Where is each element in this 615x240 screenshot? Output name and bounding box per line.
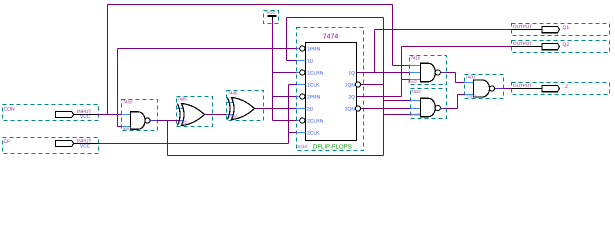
svg-text:2QN: 2QN [345, 107, 356, 113]
svg-text:OUTPUT: OUTPUT [513, 24, 532, 29]
svg-text:Inst5: Inst5 [178, 119, 188, 124]
svg-text:OUTPUT: OUTPUT [513, 83, 532, 88]
svg-text:7486: 7486 [177, 97, 187, 102]
svg-text:Inst6: Inst6 [229, 113, 239, 118]
svg-text:1CLRN: 1CLRN [307, 71, 324, 77]
svg-text:Inst1: Inst1 [123, 126, 133, 131]
svg-text:VCC: VCC [80, 143, 91, 149]
svg-text:CP: CP [4, 139, 12, 145]
svg-text:CON: CON [4, 107, 16, 113]
svg-text:OUTPUT: OUTPUT [513, 41, 532, 46]
svg-text:2PRN: 2PRN [307, 95, 321, 101]
svg-text:7410: 7410 [411, 56, 421, 61]
svg-text:2D: 2D [307, 107, 314, 113]
svg-text:Z: Z [565, 84, 568, 90]
svg-text:Q2: Q2 [563, 42, 570, 48]
svg-text:VCC: VCC [267, 10, 276, 15]
svg-text:Inst2: Inst2 [408, 79, 418, 84]
svg-text:DFLIP-FLOPS: DFLIP-FLOPS [313, 144, 352, 151]
svg-text:7486: 7486 [228, 91, 238, 96]
svg-text:7410: 7410 [411, 89, 421, 94]
svg-text:1CLK: 1CLK [307, 83, 320, 89]
svg-text:7400: 7400 [465, 74, 475, 79]
svg-text:Inst3: Inst3 [411, 112, 421, 117]
svg-text:2CLK: 2CLK [307, 131, 320, 137]
svg-text:inst4: inst4 [297, 144, 308, 150]
svg-text:1Q: 1Q [348, 71, 355, 77]
svg-text:1PRN: 1PRN [307, 47, 321, 53]
svg-text:2Q: 2Q [348, 95, 355, 101]
svg-text:VCC: VCC [80, 114, 91, 120]
svg-text:1QN: 1QN [345, 83, 356, 89]
svg-text:7400: 7400 [123, 100, 133, 105]
svg-text:1D: 1D [307, 59, 314, 65]
svg-text:2CLRN: 2CLRN [307, 119, 324, 125]
svg-text:Q1: Q1 [563, 25, 570, 31]
svg-text:7474: 7474 [323, 34, 339, 41]
svg-text:Inst7: Inst7 [467, 94, 477, 99]
